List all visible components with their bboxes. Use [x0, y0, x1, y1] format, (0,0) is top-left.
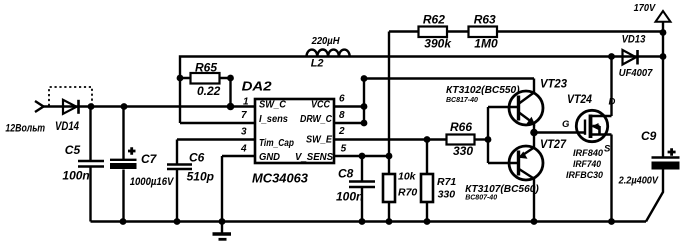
svg-text:DRW_C: DRW_C: [300, 113, 332, 125]
svg-text:VT27: VT27: [540, 137, 567, 151]
svg-text:170V: 170V: [634, 2, 656, 14]
svg-text:2.2µ400V: 2.2µ400V: [618, 174, 659, 186]
svg-text:7: 7: [241, 110, 247, 121]
svg-text:4: 4: [240, 144, 247, 155]
svg-text:1000µ16V: 1000µ16V: [130, 176, 175, 188]
svg-text:390k: 390k: [424, 37, 452, 51]
svg-text:VT23: VT23: [540, 76, 567, 90]
svg-text:UF4007: UF4007: [619, 67, 654, 79]
svg-text:100n: 100n: [336, 190, 363, 204]
svg-text:220µH: 220µH: [311, 35, 340, 47]
svg-text:VT24: VT24: [567, 92, 592, 106]
svg-text:0.22: 0.22: [197, 84, 221, 98]
svg-text:6: 6: [339, 94, 345, 105]
svg-text:C6: C6: [189, 151, 205, 165]
svg-text:DA2: DA2: [242, 78, 273, 93]
svg-text:C8: C8: [338, 167, 354, 181]
svg-text:V_SENS: V_SENS: [295, 151, 333, 163]
svg-text:VD13: VD13: [622, 33, 646, 45]
svg-text:L2: L2: [311, 58, 324, 70]
svg-text:S: S: [604, 143, 611, 154]
svg-text:R66: R66: [450, 120, 472, 134]
svg-text:BC807-40: BC807-40: [465, 194, 497, 201]
svg-text:BC817-40: BC817-40: [446, 97, 478, 104]
svg-text:R62: R62: [423, 12, 445, 26]
svg-text:2: 2: [338, 126, 345, 137]
svg-text:Tim_Cap: Tim_Cap: [259, 137, 294, 149]
svg-text:G: G: [562, 119, 570, 130]
svg-text:IRF740: IRF740: [573, 159, 602, 170]
svg-text:5: 5: [341, 144, 347, 155]
svg-text:C9: C9: [641, 129, 657, 143]
svg-text:1M0: 1M0: [474, 37, 498, 51]
svg-text:КТ3102(BC550): КТ3102(BC550): [446, 85, 520, 96]
svg-text:10k: 10k: [398, 170, 417, 182]
svg-text:I_sens: I_sens: [259, 113, 288, 125]
svg-text:КТ3107(BC560): КТ3107(BC560): [465, 184, 539, 195]
svg-text:R63: R63: [474, 12, 496, 26]
svg-text:510p: 510p: [187, 170, 214, 184]
svg-text:IRF840: IRF840: [573, 148, 604, 159]
svg-text:MC34063: MC34063: [252, 170, 309, 185]
svg-text:R65: R65: [195, 60, 217, 74]
svg-text:330: 330: [453, 144, 473, 158]
svg-text:8: 8: [339, 110, 345, 121]
svg-text:100n: 100n: [62, 169, 89, 183]
svg-text:R71: R71: [437, 176, 456, 188]
svg-text:D: D: [609, 96, 616, 107]
svg-text:VCC: VCC: [311, 99, 330, 111]
svg-text:IRFBC30: IRFBC30: [566, 170, 604, 181]
svg-text:12Вольт: 12Вольт: [5, 123, 45, 135]
svg-text:C5: C5: [65, 143, 81, 157]
svg-text:C7: C7: [141, 152, 158, 166]
svg-text:R70: R70: [398, 187, 417, 199]
svg-text:GND: GND: [259, 151, 280, 163]
svg-text:1: 1: [243, 97, 249, 108]
svg-text:SW_C: SW_C: [259, 99, 286, 111]
svg-text:VD14: VD14: [55, 121, 79, 133]
svg-text:3: 3: [241, 127, 247, 138]
svg-text:330: 330: [438, 188, 456, 200]
svg-text:SW_E: SW_E: [306, 134, 333, 146]
